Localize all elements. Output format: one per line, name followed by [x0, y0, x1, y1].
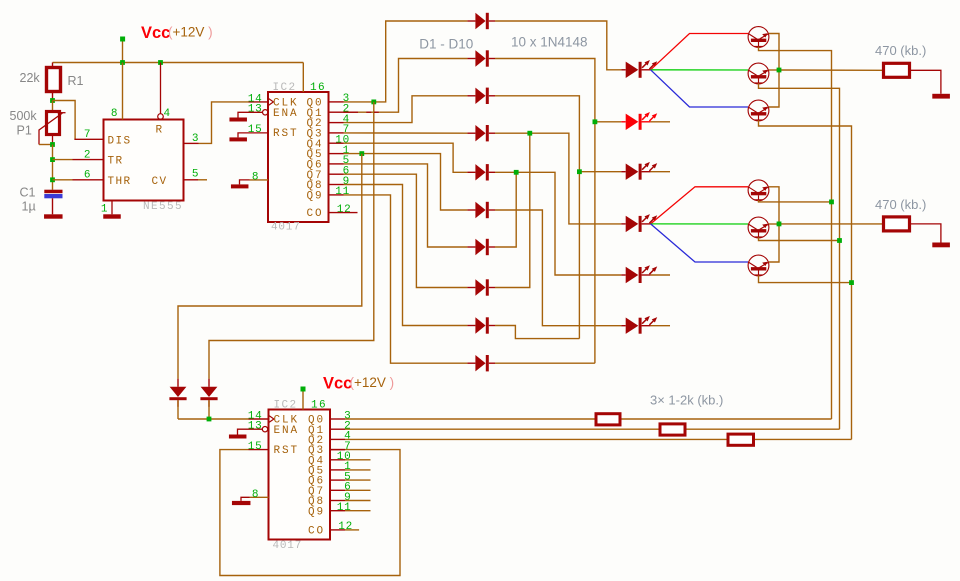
junction TR	[50, 157, 55, 162]
transistor Q1	[748, 27, 769, 48]
power Vcc symbol (top)	[120, 37, 125, 42]
wire Q7 to D8	[344, 174, 468, 287]
junction R1 / DIS	[50, 98, 55, 103]
junction LED2 feed	[595, 121, 621, 123]
ground IC3 ENA	[229, 435, 247, 439]
stub wire Q9 (IC3)	[345, 510, 371, 512]
ground IC2 pin8	[231, 184, 249, 188]
pin lead Q6 (IC3)	[330, 479, 345, 481]
wire Q9 to D10	[344, 195, 468, 363]
svg-text:1: 1	[101, 204, 108, 216]
svg-text:2: 2	[84, 149, 91, 161]
pin lead Q2 (IC3)	[330, 438, 345, 440]
svg-text:11: 11	[335, 186, 350, 198]
resistor 1-2k #3	[728, 434, 754, 445]
junction D5/D7	[514, 170, 519, 175]
junction P1 wiper	[50, 142, 55, 147]
svg-text:P1: P1	[17, 124, 32, 138]
stub wire Q7 (IC3)	[345, 489, 371, 491]
potentiometer P1 500k	[52, 101, 54, 112]
wire diode cathodes to IC3 CLK	[177, 400, 179, 419]
junction D4/D8	[527, 131, 532, 136]
timer IC1 NE555	[104, 120, 184, 201]
pin lead Q9 (IC2)	[329, 194, 344, 196]
svg-text:5: 5	[192, 169, 199, 181]
wire rail Q2 (IC3) to bases	[345, 438, 728, 440]
wire D8 up to D4 row	[495, 133, 530, 287]
svg-text:C1: C1	[20, 186, 36, 200]
pin lead Q9 (IC3)	[330, 510, 345, 512]
stub wire Q8 (IC3)	[345, 500, 371, 502]
svg-text:11: 11	[337, 502, 352, 514]
wire D4 to LED4	[495, 133, 621, 224]
pin lead Q7 (IC3)	[330, 489, 345, 491]
wire rail Q1 (IC3) to bases	[345, 428, 660, 430]
resistor 1-2k #1	[596, 414, 620, 425]
wire TR to 555	[53, 159, 73, 161]
wire Q6 to D7	[344, 164, 468, 247]
wire D5 to LED5	[495, 172, 621, 275]
svg-text:(+12V ): (+12V )	[350, 375, 395, 390]
pin lead Q6 (IC2)	[329, 163, 344, 165]
transistor Q4	[748, 180, 769, 201]
resistor 1-2k #2	[660, 424, 685, 435]
diode D3	[467, 95, 475, 97]
ground IC2 ENA	[229, 118, 247, 122]
svg-text:10 x 1N4148: 10 x 1N4148	[511, 34, 588, 49]
pin lead Q4 (IC3)	[330, 459, 345, 461]
junction emitter group2	[777, 222, 782, 227]
junction base rail 3	[849, 280, 854, 285]
capacitor C1 1u	[44, 190, 62, 194]
svg-text:DIS: DIS	[108, 135, 132, 147]
diode D7	[467, 246, 475, 248]
svg-text:TR: TR	[108, 156, 124, 168]
svg-text:8: 8	[252, 171, 259, 183]
pin lead Q5 (IC2)	[329, 153, 344, 155]
wire Q0 to D1	[344, 21, 468, 102]
svg-text:Q9: Q9	[306, 191, 323, 203]
wire Q4 to D5	[344, 143, 468, 172]
junction Q0 branch	[371, 100, 376, 105]
svg-text:Vcc: Vcc	[141, 24, 170, 42]
pin lead IC2 CO	[329, 212, 358, 214]
pin lead Q3 (IC3)	[330, 449, 345, 451]
stub wire Q6 (IC3)	[345, 479, 371, 481]
svg-text:470 (kb.): 470 (kb.)	[875, 43, 926, 58]
diode D4	[467, 132, 475, 134]
led LED2	[621, 121, 626, 123]
svg-text:12: 12	[338, 521, 353, 533]
wire divider to TR/THR	[52, 145, 54, 190]
svg-text:15: 15	[248, 441, 263, 453]
ground 470 (bottom)	[932, 243, 950, 248]
clock marker IC3 CLK	[269, 415, 274, 423]
led LED5	[621, 274, 626, 276]
wire D1 to LED1	[495, 21, 621, 70]
ground C1	[44, 214, 63, 218]
diode D2	[467, 58, 475, 60]
wire Q5 to D6	[344, 154, 468, 210]
stub wire Q4 (IC3)	[345, 459, 371, 461]
junction emitter group1	[777, 68, 782, 73]
bubble IC3 ENA	[262, 427, 267, 432]
diode D6	[467, 209, 475, 211]
svg-text:1µ: 1µ	[22, 200, 36, 214]
svg-text:22k: 22k	[20, 71, 41, 85]
led LED4 (RGB)	[621, 223, 626, 225]
junction Vcc rail / pin8	[120, 60, 125, 65]
svg-text:RST: RST	[273, 128, 299, 140]
svg-text:13: 13	[248, 421, 263, 433]
diode D5	[467, 171, 475, 173]
pin 8 wire (555 Vcc)	[122, 63, 124, 120]
wire IC2 ENA to ground	[238, 112, 263, 117]
wire CV stub	[184, 179, 199, 181]
svg-text:Q9: Q9	[308, 506, 325, 518]
wire Vcc rail (555 area)	[53, 62, 304, 64]
wire Q8 to D9	[344, 185, 468, 326]
wire D6 to LED6	[495, 210, 621, 326]
svg-text:8: 8	[111, 108, 118, 120]
svg-text:15: 15	[248, 124, 263, 136]
wire D7 up to D5 row	[495, 172, 516, 247]
svg-text:R: R	[156, 125, 163, 137]
svg-text:CO: CO	[308, 526, 325, 538]
power Vcc symbol (bottom)	[301, 387, 306, 392]
ground 470 (top)	[932, 94, 950, 99]
wire IC2 RST to ground	[238, 133, 268, 138]
resistor 470 (bottom)	[884, 217, 910, 231]
bubble IC2 ENA	[263, 110, 268, 115]
transistor Q6	[748, 255, 769, 276]
svg-text:6: 6	[84, 170, 91, 182]
transistor Q2	[748, 63, 769, 84]
svg-text:CV: CV	[152, 176, 168, 188]
transistor Q5	[748, 217, 769, 238]
wire Q6 base	[759, 275, 852, 282]
junction Q5 branch	[359, 151, 364, 156]
resistor R1 22k	[52, 63, 54, 68]
wire Q0 branch to D12	[209, 102, 374, 379]
diode D10	[467, 362, 475, 364]
wire Q1 base rail	[759, 47, 832, 419]
pin lead Q0 (IC2)	[329, 101, 344, 103]
wire THR to 555	[53, 179, 73, 181]
svg-text:16: 16	[311, 400, 327, 412]
svg-text:ENA: ENA	[273, 108, 299, 120]
wire Q5 base	[759, 237, 840, 240]
svg-text:500k: 500k	[10, 109, 38, 123]
wire IC3 pin8 to ground	[250, 496, 269, 498]
pin lead Q8 (IC3)	[330, 500, 345, 502]
diode D11	[177, 379, 179, 387]
wire Q1 to D2	[344, 59, 468, 113]
resistor 470 (top)	[884, 63, 910, 77]
svg-text:4017: 4017	[271, 221, 301, 233]
diode D12	[208, 379, 210, 387]
wire emitter rail group1	[769, 34, 779, 108]
svg-text:(+12V ): (+12V )	[168, 25, 213, 40]
diode D8	[467, 287, 475, 289]
wire IC2 pin8 to ground	[250, 179, 269, 181]
wire LED4 green to Q5 transistor	[651, 223, 748, 225]
led LED6	[621, 325, 626, 327]
svg-text:470 (kb.): 470 (kb.)	[875, 197, 926, 212]
wire LED4 red to Q4 transistor	[651, 187, 748, 224]
junction Vcc rail / R pin	[158, 60, 163, 65]
diode D9	[467, 325, 475, 327]
pin lead Q1 (IC2)	[329, 111, 344, 113]
svg-text:D1 - D10: D1 - D10	[419, 37, 473, 52]
junction LED3 feed	[579, 171, 621, 173]
ground IC2 RST	[229, 137, 247, 141]
pin lead Q5 (IC3)	[330, 469, 345, 471]
svg-text:Vcc: Vcc	[323, 374, 352, 392]
svg-text:3× 1-2k (kb.): 3× 1-2k (kb.)	[650, 392, 723, 407]
svg-text:CO: CO	[306, 208, 323, 220]
junction THR	[50, 177, 55, 182]
svg-text:IC2: IC2	[274, 400, 298, 412]
wire rail Q0 (IC3) to bases	[345, 418, 596, 420]
led LED3	[621, 171, 626, 173]
svg-text:4: 4	[164, 108, 171, 120]
led LED1 (RGB)	[621, 69, 626, 71]
svg-text:NE555: NE555	[143, 201, 183, 213]
svg-text:12: 12	[337, 204, 352, 216]
pin lead Q3 (IC2)	[329, 132, 344, 134]
svg-text:ENA: ENA	[274, 425, 300, 437]
svg-text:16: 16	[310, 82, 326, 94]
wire D2/D10 vertical	[495, 59, 595, 364]
pin lead Q1 (IC3)	[330, 428, 345, 430]
wire 555 OUT to IC2 CLK	[184, 142, 199, 144]
wire LED1 blue to Q3 transistor	[651, 70, 748, 107]
diode D1	[467, 20, 475, 22]
junction base rail 2	[837, 238, 842, 243]
wire D3/D9 vertical	[495, 96, 579, 339]
svg-text:13: 13	[248, 104, 263, 116]
wire 470 to ground (bottom)	[910, 224, 941, 243]
clock marker IC2 CLK	[268, 98, 273, 106]
stub wire CO (IC3)	[345, 529, 359, 531]
svg-text:IC2: IC2	[273, 82, 297, 94]
svg-text:8: 8	[252, 489, 259, 501]
wire LED4 blue to Q6 transistor	[651, 224, 748, 262]
wire Q3 base rail	[759, 120, 852, 439]
stub wire Q5 (IC3)	[345, 469, 371, 471]
junction D12 cathode	[207, 417, 212, 422]
pin lead Q7 (IC2)	[329, 173, 344, 175]
wire D10 to vertical	[495, 362, 595, 364]
transistor Q3	[748, 100, 769, 121]
wire LED1 red to Q1 transistor	[651, 34, 748, 70]
wire Q3 to D4	[344, 132, 468, 134]
wire IC3 RST loop from Q3	[330, 449, 345, 451]
pin lead Q2 (IC2)	[329, 122, 344, 124]
wire 470 to ground (top)	[910, 70, 941, 94]
wire DIS to 555	[53, 101, 76, 140]
svg-text:4017: 4017	[273, 540, 303, 552]
svg-text:THR: THR	[108, 176, 132, 188]
wire LED1 green to Q2 transistor	[651, 69, 748, 71]
svg-text:RST: RST	[274, 445, 300, 457]
wire Q4 base	[759, 200, 832, 202]
wire IC3 ENA to ground	[238, 429, 264, 434]
ground 555 pin 1	[111, 201, 113, 215]
counter IC3 4017 (bottom)	[269, 410, 331, 540]
counter IC2 4017 (top)	[268, 92, 329, 222]
pin 4 R wire with bubble	[160, 63, 162, 114]
wire Vcc to IC2 pin16	[302, 63, 304, 93]
pin lead Q0 (IC3)	[330, 418, 345, 420]
wire Q2 base rail	[759, 83, 840, 429]
svg-text:R1: R1	[68, 74, 84, 88]
wire Q5 branch to D11	[178, 154, 362, 379]
pin lead Q8 (IC2)	[329, 184, 344, 186]
wire emitter rail group2	[769, 187, 779, 262]
ground IC3 pin8	[232, 501, 251, 505]
pin lead CO (IC3)	[330, 529, 345, 531]
pin lead Q4 (IC2)	[329, 142, 344, 144]
wire Q2 to D3	[344, 96, 468, 123]
junction base rail 1	[829, 200, 834, 205]
svg-text:7: 7	[84, 129, 91, 141]
wire D9 jog to vertical	[495, 326, 579, 339]
